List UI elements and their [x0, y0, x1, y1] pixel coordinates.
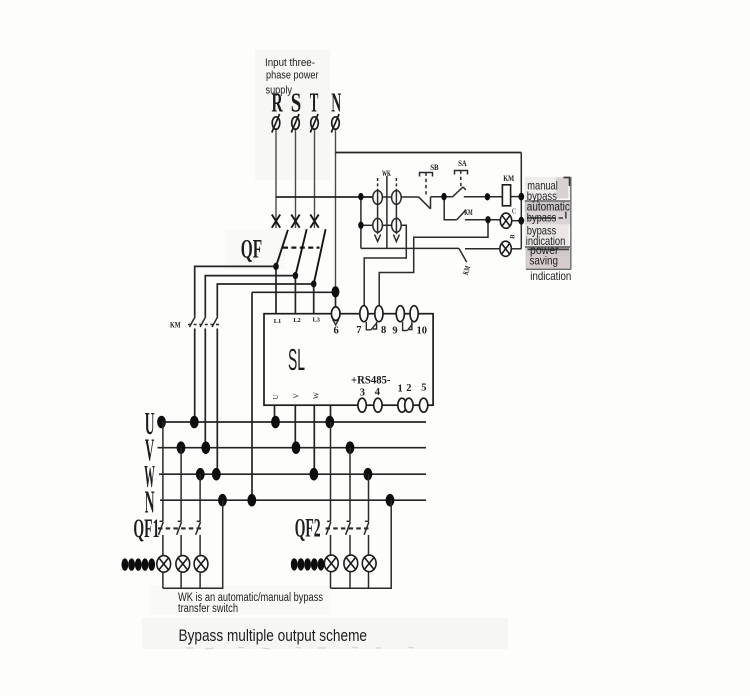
svg-text:bypass: bypass: [527, 212, 557, 225]
svg-text:6: 6: [334, 326, 339, 337]
svg-text:V: V: [293, 393, 301, 399]
svg-text:8: 8: [381, 325, 386, 336]
svg-text:+RS485-: +RS485-: [351, 373, 391, 387]
svg-text:2: 2: [406, 383, 411, 394]
svg-text:1: 1: [398, 384, 403, 395]
svg-text:N: N: [331, 88, 341, 118]
svg-text:L3: L3: [313, 316, 320, 323]
svg-text:T: T: [310, 88, 319, 118]
svg-text:KM: KM: [464, 207, 473, 217]
svg-text:4: 4: [375, 387, 381, 398]
svg-text:9: 9: [392, 326, 397, 337]
svg-text:L2: L2: [293, 317, 300, 324]
svg-text:3: 3: [360, 387, 365, 398]
svg-text:phase power: phase power: [266, 69, 319, 81]
svg-text:10: 10: [417, 326, 428, 337]
svg-text:saving: saving: [530, 255, 559, 268]
svg-text:SA: SA: [458, 158, 467, 168]
svg-text:KM: KM: [170, 320, 181, 330]
svg-text:5: 5: [421, 382, 426, 393]
svg-text:7: 7: [356, 325, 361, 336]
svg-text:QF2: QF2: [295, 513, 321, 542]
svg-text:R: R: [272, 88, 283, 118]
svg-text:Input three-: Input three-: [265, 57, 315, 69]
svg-text:C: C: [512, 208, 517, 216]
svg-text:indication: indication: [530, 270, 571, 283]
svg-text:L1: L1: [274, 318, 281, 325]
svg-text:KM: KM: [503, 173, 514, 183]
svg-text:S: S: [291, 88, 302, 118]
svg-text:QF1: QF1: [133, 514, 159, 543]
svg-text:QF: QF: [241, 234, 262, 263]
svg-text:Bypass multiple output scheme: Bypass multiple output scheme: [179, 626, 368, 645]
svg-text:SB: SB: [430, 162, 439, 172]
svg-text:W: W: [313, 392, 321, 399]
svg-text:U: U: [272, 394, 280, 400]
svg-text:WK: WK: [382, 168, 391, 178]
svg-text:transfer switch: transfer switch: [178, 603, 238, 615]
svg-text:SL: SL: [288, 343, 305, 377]
